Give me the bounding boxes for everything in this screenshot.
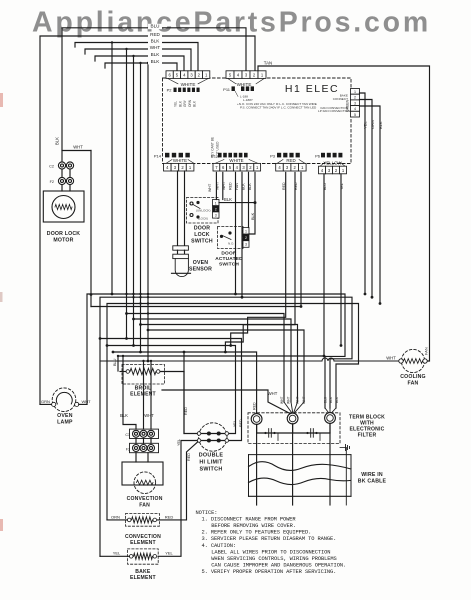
wire BLK3 top: [105, 63, 177, 71]
svg-text:BLK: BLK: [178, 100, 182, 107]
svg-text:CONNECT: CONNECT: [333, 97, 348, 101]
svg-text:SWITCH: SWITCH: [191, 239, 213, 245]
wire in BK cable box: [249, 454, 352, 456]
bus line B8 to hi-limit RED: [100, 339, 242, 441]
svg-text:BLK: BLK: [224, 197, 232, 202]
wire YEL from P6: [340, 174, 342, 346]
svg-text:5. VERIFY PROPER OPERATION AFT: 5. VERIFY PROPER OPERATION AFTER SERVICI…: [202, 569, 337, 575]
hook wire from B11 to term2: [162, 390, 290, 414]
svg-text:3: 3: [215, 214, 217, 218]
wire YEL from J3: [360, 93, 366, 294]
convection element: [126, 514, 160, 527]
wires P1 to door lock switch: [215, 172, 217, 199]
svg-text:WHT: WHT: [280, 396, 284, 404]
connector P1 WHITE (7 pin): [215, 160, 224, 164]
svg-text:GRY: GRY: [183, 99, 187, 107]
ground symbol: [340, 447, 346, 449]
svg-text:2: 2: [354, 96, 356, 100]
svg-text:BLK: BLK: [120, 413, 128, 418]
double hi limit switch dashed circle: [199, 423, 227, 451]
svg-text:3: 3: [354, 101, 356, 105]
bus line B3: [107, 304, 359, 520]
svg-text:BLK: BLK: [151, 59, 161, 64]
wire RED top: [40, 36, 255, 404]
svg-text:(LOCK): (LOCK): [198, 217, 208, 221]
svg-text:YELLOW: YELLOW: [323, 160, 342, 165]
svg-text:FAN: FAN: [139, 503, 150, 509]
connector J1 WHITE (top left, 6 pin): [166, 71, 173, 79]
svg-text:YEL: YEL: [174, 101, 178, 107]
svg-text:WHT: WHT: [268, 391, 278, 396]
svg-text:DOOR: DOOR: [194, 226, 210, 232]
svg-text:WHEN SERVICING CONTROLS, WIRIN: WHEN SERVICING CONTROLS, WIRING PROBLEMS: [211, 556, 336, 562]
svg-text:DOUBLE: DOUBLE: [199, 453, 224, 459]
svg-text:LAMP: LAMP: [57, 420, 73, 426]
svg-text:4: 4: [354, 107, 356, 111]
svg-text:RED: RED: [252, 402, 256, 410]
svg-text:P11: P11: [223, 87, 231, 92]
svg-text:WHT: WHT: [296, 396, 300, 404]
bus line B3x: [91, 306, 301, 308]
svg-text:(UNLOCK): (UNLOCK): [196, 209, 211, 213]
svg-text:1: 1: [354, 90, 356, 94]
svg-text:ELEMENT: ELEMENT: [130, 540, 156, 546]
door actuated switch dashed box: [218, 227, 244, 249]
svg-text:BLK: BLK: [55, 137, 60, 145]
wire ORN from J3: [360, 100, 373, 298]
door lock switch dashed box: [187, 198, 219, 224]
ground wire down: [345, 448, 347, 506]
svg-text:WHITE: WHITE: [237, 82, 252, 87]
wire hi-limit row2 left RED diagonal to convection element: [158, 442, 198, 520]
bus line B6 to term WHT: [141, 325, 298, 403]
door lock motor: [43, 191, 84, 222]
svg-text:H1 ELEC: H1 ELEC: [285, 83, 339, 95]
svg-text:3. SERVICER PLEASE RETURN DIAG: 3. SERVICER PLEASE RETURN DIAGRAM TO RAN…: [202, 536, 337, 542]
wires to C3: [123, 356, 136, 430]
svg-text:YEL: YEL: [113, 551, 121, 556]
svg-text:P.S. CONNECT TAN 240V IF L.C.: P.S. CONNECT TAN 240V IF L.C. CONNECT TA…: [240, 105, 317, 109]
svg-text:BLK: BLK: [193, 100, 197, 107]
svg-text:N.O.: N.O.: [228, 242, 234, 246]
svg-text:WHT: WHT: [73, 145, 83, 150]
svg-text:GRN: GRN: [41, 399, 50, 404]
svg-text:BK CABLE: BK CABLE: [358, 479, 387, 485]
svg-text:YEL: YEL: [165, 551, 173, 556]
svg-text:1: 1: [245, 230, 247, 234]
svg-text:TAN: TAN: [264, 61, 272, 66]
svg-text:P1: P1: [211, 154, 217, 159]
switch contacts: [190, 202, 193, 205]
cooling fan dashed circle: [401, 349, 424, 372]
terminal T2: [287, 413, 298, 424]
svg-text:RED: RED: [286, 158, 295, 163]
svg-text:BLK: BLK: [335, 396, 339, 403]
svg-text:1: 1: [215, 201, 217, 205]
convection fan box: [122, 462, 163, 485]
svg-text:C2: C2: [49, 165, 54, 169]
wires C2-F2-motor: [61, 169, 63, 177]
door lock switch connector cells: [213, 200, 220, 206]
svg-text:ACTUATED: ACTUATED: [215, 256, 243, 262]
bus line B1: [87, 294, 345, 408]
svg-text:BLK: BLK: [251, 212, 255, 220]
svg-text:YEL: YEL: [363, 121, 368, 129]
bake element: [128, 549, 159, 564]
bus line B12 WHT to cooling fan: [100, 358, 399, 361]
svg-text:YEL: YEL: [233, 420, 237, 427]
terminal T1: [251, 414, 262, 425]
svg-text:4. CAUTION:: 4. CAUTION:: [202, 543, 236, 549]
wire BLK top: [75, 43, 198, 72]
bus line B5 to term WHT: [134, 319, 292, 402]
svg-text:BLU: BLU: [151, 24, 160, 29]
svg-text:P2: P2: [167, 88, 173, 93]
svg-text:RED: RED: [239, 419, 243, 427]
svg-text:CAN CAUSE IMPROPER AND DANGERO: CAN CAUSE IMPROPER AND DANGEROUS OPERATI…: [211, 562, 346, 568]
bus line B7 to term WHT: [148, 330, 304, 402]
staircase wire RED A: [231, 172, 286, 345]
svg-text:BLK: BLK: [151, 38, 161, 43]
svg-text:LOCK: LOCK: [194, 232, 210, 238]
bus line B2: [100, 297, 352, 556]
svg-text:2. REFER ONLY TO FEATURES EQUI: 2. REFER ONLY TO FEATURES EQUIPPED.: [202, 530, 312, 536]
svg-text:MOTOR: MOTOR: [53, 238, 73, 244]
svg-text:WHITE: WHITE: [173, 158, 187, 163]
svg-text:FILTER: FILTER: [358, 432, 377, 438]
svg-text:WHT: WHT: [81, 399, 91, 404]
svg-text:P3: P3: [270, 154, 276, 159]
wire BLU top: [62, 28, 246, 162]
wire BLU from P6: [323, 174, 325, 356]
tiny configuration notes: [235, 91, 238, 97]
wire hi-limit row1 left RED up: [184, 352, 197, 434]
svg-text:RED: RED: [187, 453, 191, 461]
connector P6 YELLOW (4 pin): [320, 162, 325, 166]
svg-text:BEFORE REMOVING WIRE COVER.: BEFORE REMOVING WIRE COVER.: [211, 523, 296, 529]
svg-text:WHT: WHT: [287, 396, 291, 404]
svg-text:F2: F2: [50, 180, 54, 184]
svg-text:CONVECTION: CONVECTION: [125, 534, 161, 540]
terminal T3: [325, 413, 336, 424]
wire BLK2 top: [95, 56, 184, 71]
svg-text:OVEN: OVEN: [193, 260, 209, 266]
svg-text:RED: RED: [150, 32, 160, 37]
connector J3 (right edge vertical): [351, 89, 360, 95]
wire from P1 to bus: [235, 172, 237, 294]
svg-text:P6: P6: [315, 154, 321, 159]
svg-text:3: 3: [245, 243, 247, 247]
row2 contacts: [199, 440, 227, 442]
svg-text:RED: RED: [228, 182, 232, 190]
svg-text:RED: RED: [165, 514, 174, 519]
svg-text:LABEL ALL WIRES PRIOR TO DISCO: LABEL ALL WIRES PRIOR TO DISCONNECTION: [211, 549, 330, 555]
wire BLK from J3: [360, 106, 381, 304]
svg-text:SENSOR: SENSOR: [189, 267, 212, 273]
junction dots on bus: [125, 293, 127, 295]
svg-text:WHITE: WHITE: [181, 82, 196, 87]
svg-text:NOTICE:: NOTICE:: [196, 510, 218, 516]
svg-text:OVEN: OVEN: [57, 413, 73, 419]
bus line B9 to hi-limit YEL: [107, 346, 236, 434]
svg-text:BLK: BLK: [329, 396, 333, 403]
wire P1 pin1 junction to DAS: [249, 172, 255, 234]
svg-text:DOOR LOCK: DOOR LOCK: [47, 231, 81, 237]
svg-text:2: 2: [245, 236, 247, 240]
oven lamp: [40, 403, 52, 405]
broil element: [122, 365, 165, 385]
wire TAN to cooling fan: [258, 66, 430, 361]
svg-text:WHT: WHT: [302, 396, 306, 404]
svg-text:ORN: ORN: [111, 514, 120, 519]
svg-text:WHT: WHT: [386, 355, 396, 360]
H1 ELEC control board dashed outline: [163, 78, 352, 164]
top wire labels: [148, 24, 162, 29]
svg-text:BLK: BLK: [324, 396, 328, 403]
svg-text:HI LIMIT: HI LIMIT: [199, 460, 223, 466]
bus line B10 to term1 RED: [113, 352, 257, 414]
svg-text:1. DISCONNECT RANGE FROM POWER: 1. DISCONNECT RANGE FROM POWER: [202, 517, 297, 523]
svg-text:DOOR: DOOR: [221, 251, 237, 257]
svg-text:FAN CONVECTION: FAN CONVECTION: [320, 106, 348, 110]
svg-text:COOLING: COOLING: [400, 374, 426, 380]
connector J2 WHITE (top, 5 pin): [226, 71, 234, 79]
svg-text:FAN: FAN: [408, 380, 419, 386]
svg-text:ORN: ORN: [370, 120, 375, 129]
connector P14 WHITE (4 pin): [166, 160, 172, 164]
bus line B11 BLU to broil: [118, 356, 324, 371]
wire hi-limit row2 left YEL to bake element: [158, 441, 197, 557]
connector P3 RED (4 pin): [277, 160, 283, 164]
wire from P3 to bus: [300, 172, 302, 306]
svg-text:SWITCH: SWITCH: [219, 262, 239, 268]
svg-text:YEL: YEL: [177, 439, 181, 446]
bus line B4 to term WHT: [127, 314, 285, 403]
svg-text:WHT: WHT: [150, 45, 161, 50]
svg-text:ELEMENT: ELEMENT: [130, 575, 156, 581]
svg-text:WHT: WHT: [144, 413, 154, 418]
scan edge marks: [0, 93, 3, 107]
wire WHT top: [85, 49, 191, 71]
svg-text:BLU: BLU: [113, 358, 117, 366]
oven sensor connector and bulb: [177, 171, 179, 246]
branch verticals to bus: [111, 43, 113, 295]
svg-text:WIRE IN: WIRE IN: [361, 472, 383, 478]
svg-text:CONVECTION: CONVECTION: [127, 496, 163, 502]
svg-text:WHT: WHT: [208, 183, 212, 192]
svg-text:BLK: BLK: [378, 121, 383, 129]
svg-text:FAN: FAN: [423, 347, 428, 355]
svg-text:ORN: ORN: [188, 99, 192, 107]
svg-text:2: 2: [215, 208, 217, 212]
svg-text:AppliancePartsPros.com: AppliancePartsPros.com: [32, 7, 431, 39]
term block dashed box: [248, 413, 340, 444]
row1 contacts: [199, 433, 227, 435]
svg-text:WHITE: WHITE: [229, 158, 243, 163]
term block feeds BLK diagonals: [325, 408, 330, 415]
svg-text:SWITCH: SWITCH: [199, 467, 222, 473]
svg-text:5: 5: [354, 113, 356, 117]
wire P1 pin to door actuated switch: [248, 172, 250, 227]
staircase wire RED B: [225, 172, 295, 352]
filter capacitors: [256, 424, 258, 433]
svg-text:P14: P14: [154, 154, 162, 159]
wires down from terminals through cable: [256, 424, 258, 505]
svg-text:BLK: BLK: [151, 52, 161, 57]
door actuated switch connector cells: [243, 228, 249, 235]
